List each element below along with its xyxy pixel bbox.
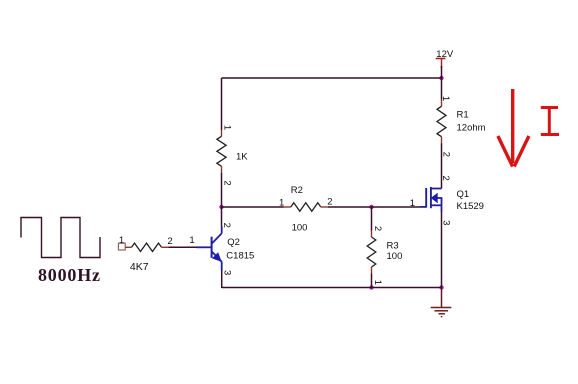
power port 12V bar: [436, 58, 446, 60]
svg-text:8000Hz: 8000Hz: [38, 265, 101, 285]
svg-text:12ohm: 12ohm: [457, 122, 486, 133]
pin number 3 (Q2 emitter): [221, 270, 232, 275]
wire top rail: [222, 77, 442, 79]
svg-text:Q1: Q1: [457, 189, 470, 200]
label 8000Hz: [38, 265, 101, 285]
svg-text:R1: R1: [457, 109, 469, 120]
pin number 2 (R3 top): [372, 226, 383, 231]
pin number 2 (R2 right): [327, 197, 332, 208]
pin number 2 (1K bottom): [221, 180, 232, 185]
value label 100 (R2): [292, 223, 308, 234]
resistor R3 zigzag body: [367, 237, 376, 267]
svg-text:R3: R3: [387, 240, 399, 251]
pin number 1 (Q1 gate): [410, 198, 415, 209]
svg-text:100: 100: [292, 223, 308, 234]
wire Q1 source to bottom rail: [441, 212, 443, 288]
svg-text:100: 100: [387, 251, 403, 262]
svg-text:Q2: Q2: [227, 237, 240, 248]
current arrow I head: [498, 136, 529, 167]
value label 12ohm: [457, 122, 486, 133]
pin number 1 (Q2 base): [189, 235, 194, 246]
pin number 2 (4K7 right): [167, 236, 172, 247]
svg-text:2: 2: [372, 226, 383, 231]
pin number 1 (1K top): [221, 125, 232, 130]
pin number 1 (R1 top): [440, 96, 451, 101]
wire left vertical upper (to 1K pin 1): [221, 78, 223, 130]
wire left vertical lower (1K pin2 to node): [221, 173, 223, 207]
value label 1K: [236, 152, 248, 163]
designator label Q1: [457, 189, 470, 200]
svg-text:K1529: K1529: [457, 201, 484, 212]
svg-text:4K7: 4K7: [130, 261, 149, 273]
svg-text:1: 1: [372, 280, 383, 285]
svg-text:2: 2: [327, 197, 332, 208]
pin number 2 (R1 bottom): [440, 152, 451, 157]
wire Q2 collector to node: [221, 207, 223, 226]
designator label R3: [387, 240, 399, 251]
svg-text:1: 1: [279, 197, 284, 208]
designator label R1: [457, 109, 469, 120]
pin number 1 (R3 bottom): [372, 280, 383, 285]
resistor 4K7 zigzag body: [132, 243, 162, 251]
square wave source symbol: [21, 218, 100, 258]
resistor R(1K) lead bottom: [221, 166, 223, 173]
transistor Q1 MOSFET body: [420, 187, 441, 212]
ground symbol: [431, 308, 452, 317]
pin number 2 (Q2 collector): [221, 223, 232, 228]
value label 4K7: [130, 261, 149, 273]
resistor R3 lead bottom: [371, 267, 373, 274]
svg-text:2: 2: [167, 236, 172, 247]
svg-text:1: 1: [119, 235, 124, 246]
pin number 1 (R2 left): [279, 197, 284, 208]
wire 4K7 to Q2 base: [169, 246, 198, 248]
port terminal square: [118, 243, 125, 250]
current arrow I shaft: [511, 89, 514, 163]
designator label R2: [291, 185, 303, 196]
resistor 4K7 lead left: [125, 246, 131, 248]
value label 100 (R3): [387, 251, 403, 262]
svg-text:2: 2: [221, 180, 232, 185]
svg-text:3: 3: [221, 270, 232, 275]
svg-text:2: 2: [221, 223, 232, 228]
part label C1815: [226, 251, 254, 262]
node junction dot at 12V rail: [439, 76, 443, 80]
svg-text:12V: 12V: [436, 49, 454, 60]
wire R3 branch upper: [371, 207, 373, 231]
wire R1 to Q1 drain: [441, 144, 443, 189]
resistor R2 lead left: [284, 206, 291, 208]
svg-text:C1815: C1815: [226, 251, 254, 262]
resistor R1 lead top: [441, 100, 443, 107]
net label 12V: [436, 49, 454, 60]
part label K1529: [457, 201, 484, 212]
resistor R2 zigzag body: [291, 203, 321, 211]
transistor Q2 NPN body: [197, 226, 222, 271]
wire R3 branch lower: [371, 274, 373, 288]
node junction dot at R3 bottom: [369, 285, 373, 289]
svg-text:1: 1: [221, 125, 232, 130]
pin number 1 (4K7 left): [119, 235, 124, 246]
designator label Q2: [227, 237, 240, 248]
svg-text:1: 1: [189, 235, 194, 246]
wire Q2 emitter to bottom rail: [221, 271, 223, 288]
node junction dot at 1K/R2/Q2: [219, 205, 223, 209]
pin number 3 (Q1 source): [440, 220, 451, 225]
resistor R3 lead top: [371, 231, 373, 237]
node junction dot at ground: [439, 285, 443, 289]
pin number 2 (Q1 drain): [440, 176, 451, 181]
wire mid rail right segment (R2 to gate): [328, 206, 421, 208]
svg-text:R2: R2: [291, 185, 303, 196]
node junction dot at R3 top: [369, 205, 373, 209]
wire 12V to R1: [441, 66, 443, 100]
resistor R(1K) lead top: [221, 130, 223, 136]
power port 12V stem: [441, 59, 443, 69]
resistor R2 lead right: [321, 206, 328, 208]
current label I: [541, 108, 559, 135]
wire mid rail left segment: [222, 206, 284, 208]
svg-text:1K: 1K: [236, 152, 248, 163]
resistor 4K7 lead right: [162, 246, 169, 248]
resistor R(1K) zigzag body: [217, 136, 226, 166]
svg-text:1: 1: [410, 198, 415, 209]
resistor R1 lead bottom: [441, 137, 443, 144]
wire bottom rail: [222, 287, 442, 289]
resistor R1 zigzag body: [437, 106, 446, 136]
svg-text:2: 2: [440, 176, 451, 181]
wire ground stem: [441, 288, 443, 308]
